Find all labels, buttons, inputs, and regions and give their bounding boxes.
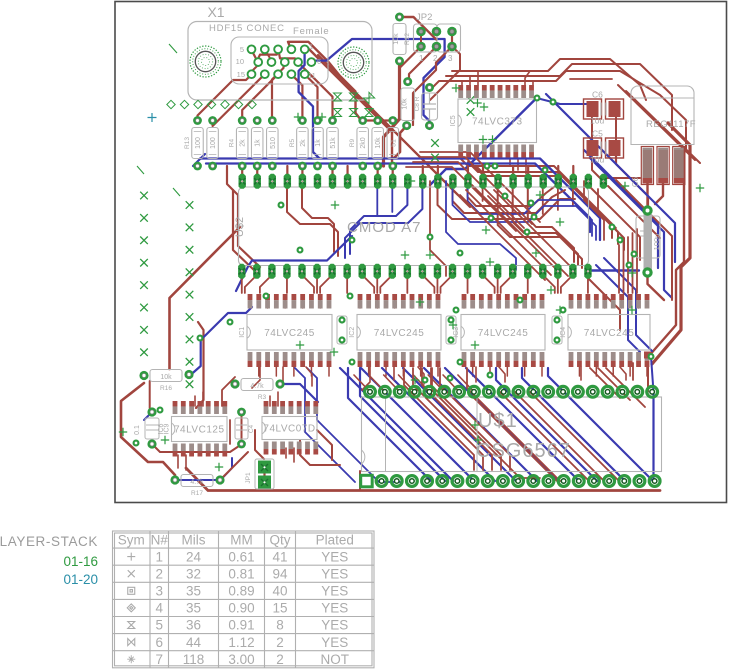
wire (300, 440, 340, 465)
wire (241, 412, 243, 444)
svg-text:R13: R13 (184, 137, 191, 149)
wire (411, 296, 413, 308)
wire (200, 159, 600, 241)
wire (458, 375, 474, 392)
U$2 top pad row (239, 174, 608, 189)
capacitor 0.1u (446, 316, 456, 344)
wire (222, 377, 235, 406)
wire (476, 166, 624, 250)
svg-text:2: 2 (276, 635, 284, 650)
svg-text:15: 15 (237, 70, 245, 79)
wire (392, 166, 394, 181)
capacitor C4 (235, 408, 255, 449)
svg-text:IC1: IC1 (239, 327, 246, 338)
wire (328, 363, 330, 376)
svg-text:IC2: IC2 (349, 327, 356, 338)
wire (430, 71, 686, 150)
wire (310, 363, 312, 376)
wire (359, 471, 361, 491)
IC IC1 74LVC245 body (239, 315, 332, 351)
wire (206, 164, 590, 233)
svg-text:R3: R3 (258, 394, 267, 401)
wire (293, 363, 295, 376)
svg-text:01-16: 01-16 (63, 554, 98, 569)
svg-text:2k: 2k (240, 139, 247, 147)
wire (360, 368, 445, 481)
wire (460, 195, 545, 280)
wire (241, 275, 243, 293)
wire (422, 166, 424, 181)
wire (422, 275, 434, 293)
svg-text:0.1: 0.1 (134, 425, 141, 435)
drill marks column 2 (186, 201, 194, 388)
wire (299, 49, 319, 158)
svg-text:YES: YES (321, 635, 348, 650)
wire (494, 190, 574, 270)
wire (394, 126, 407, 158)
wire (302, 275, 314, 293)
wire (468, 184, 558, 206)
wire (463, 296, 465, 308)
wire (588, 269, 639, 271)
IC IC4 74LVC245 body (560, 315, 650, 351)
svg-text:24: 24 (186, 549, 202, 564)
wire (460, 158, 612, 238)
wire (420, 363, 422, 376)
wire (618, 245, 620, 293)
wire (473, 397, 557, 481)
IC IC3 74LVC245 body (453, 315, 545, 351)
svg-text:44: 44 (186, 635, 202, 650)
svg-text:74LVC245: 74LVC245 (584, 328, 635, 339)
IC 74LVC07D top pads (264, 401, 319, 414)
wire (305, 74, 318, 120)
wire (317, 430, 332, 460)
wire (548, 368, 653, 481)
wire (286, 275, 288, 293)
wire (249, 296, 251, 308)
wire (121, 383, 175, 475)
wire (288, 42, 361, 121)
wire (437, 166, 439, 181)
wire (595, 363, 597, 376)
svg-text:74LVC245: 74LVC245 (264, 328, 315, 339)
wire (257, 49, 278, 60)
wire (251, 61, 257, 72)
wire (497, 275, 499, 293)
wire (468, 162, 618, 244)
X1 pin 11 (301, 70, 309, 78)
wire (604, 296, 606, 308)
wire (362, 367, 370, 390)
X1 pin 12 (288, 70, 296, 78)
wire (220, 458, 232, 481)
svg-text:41: 41 (272, 549, 287, 564)
wire (468, 189, 592, 236)
wire (263, 467, 265, 482)
svg-text:0.81: 0.81 (228, 566, 254, 581)
wire (280, 384, 318, 402)
wire (346, 275, 348, 293)
wire (452, 59, 646, 100)
wire (467, 275, 469, 293)
svg-text:C8 R: C8 R (414, 96, 421, 111)
svg-text:35: 35 (186, 584, 201, 599)
IC3 74LVC245 bottom pads (462, 352, 545, 367)
wire (306, 367, 312, 386)
svg-text:N#: N# (151, 533, 169, 548)
svg-text:3: 3 (155, 584, 163, 599)
wire (213, 74, 265, 126)
wire (557, 166, 559, 181)
wire (144, 412, 152, 420)
svg-text:YES: YES (321, 601, 348, 616)
wire (469, 76, 471, 85)
svg-text:51: 51 (390, 139, 397, 147)
svg-text:5: 5 (155, 618, 163, 633)
wire (584, 150, 658, 268)
wire (588, 278, 620, 330)
svg-text:6: 6 (317, 57, 321, 66)
svg-text:YES: YES (321, 566, 348, 581)
svg-text:IC4: IC4 (560, 327, 567, 338)
wire (431, 368, 501, 470)
wire (175, 479, 220, 481)
X1 mounting hole left (190, 46, 221, 77)
IC2 74LVC245 top pads (358, 294, 441, 309)
wire (524, 363, 526, 376)
svg-text:Qty: Qty (269, 533, 290, 548)
resistor R5 2k (297, 116, 309, 170)
wire (557, 189, 559, 210)
svg-text:10u: 10u (590, 155, 604, 165)
capacitor C5 10u (584, 129, 624, 165)
svg-text:C4: C4 (248, 424, 255, 433)
wire (420, 32, 422, 47)
op IC5 74LVC373 body (450, 99, 537, 143)
wire (461, 81, 463, 85)
wire (418, 367, 424, 384)
wire (437, 363, 439, 376)
wire (522, 368, 625, 481)
IC IC2 74LVC245 body (349, 315, 441, 351)
wire (621, 296, 623, 308)
wire (413, 368, 483, 470)
svg-text:R5: R5 (289, 138, 296, 147)
wire (319, 296, 321, 308)
wire (440, 368, 510, 470)
svg-text:100: 100 (210, 137, 217, 149)
svg-text:YES: YES (321, 549, 348, 564)
wire (496, 368, 597, 481)
resistor R9 2k0 (357, 116, 369, 170)
module U$2 CMOD A7 outline (234, 187, 589, 266)
via left of C6 (549, 98, 556, 105)
REG1117F leg pads (641, 147, 685, 185)
svg-text:1: 1 (419, 54, 424, 63)
wire (477, 71, 479, 85)
capacitor C7 100u (636, 205, 661, 277)
connector JP1 (245, 459, 274, 489)
svg-text:1: 1 (309, 42, 313, 51)
wire (340, 368, 453, 481)
X1 pin 9 (268, 58, 276, 66)
wire (413, 375, 429, 392)
wire (453, 189, 566, 213)
svg-text:4.7k: 4.7k (190, 479, 204, 486)
svg-text:U$1: U$1 (478, 410, 518, 432)
svg-text:IC5: IC5 (450, 115, 457, 126)
wire (513, 189, 578, 265)
svg-text:U$2: U$2 (234, 217, 246, 237)
svg-text:8: 8 (276, 618, 284, 633)
svg-text:10k: 10k (393, 33, 400, 45)
wire (354, 375, 370, 392)
drill marks diamonds (167, 100, 256, 108)
svg-text:2k: 2k (300, 139, 307, 147)
wire (331, 166, 333, 181)
wire (648, 127, 684, 357)
wire (441, 275, 453, 293)
svg-text:YES: YES (321, 584, 348, 599)
wire (369, 375, 385, 392)
wire (413, 162, 524, 228)
wire (527, 166, 529, 181)
resistor R16 10k (139, 370, 193, 393)
svg-text:118: 118 (183, 652, 205, 667)
svg-text:15: 15 (272, 601, 287, 616)
wire (598, 368, 630, 400)
wire (361, 119, 393, 121)
wire (272, 62, 284, 120)
wire (446, 64, 672, 130)
capacitor 0.1u (337, 316, 347, 344)
wire (647, 363, 649, 392)
wire (626, 91, 700, 163)
capacitor C 0.1 (134, 407, 159, 448)
resistor R3 4.7k (230, 379, 284, 402)
wire (430, 98, 537, 185)
plus marks (119, 84, 704, 471)
wire (177, 455, 179, 468)
wire (483, 275, 495, 293)
wire (311, 39, 444, 129)
connector X1 (188, 4, 372, 100)
capacitor C6 10u (584, 90, 624, 126)
wire (445, 368, 558, 481)
wire (430, 47, 460, 101)
IC3 74LVC245 top pads (462, 294, 545, 309)
wire (638, 296, 640, 308)
wire (189, 307, 252, 376)
wire (532, 296, 534, 308)
svg-text:MM: MM (230, 533, 253, 548)
resistor 51 (387, 116, 399, 170)
wire (616, 156, 648, 205)
X1 pin 4 (261, 45, 269, 53)
svg-text:10k: 10k (160, 374, 172, 381)
wire (561, 275, 573, 293)
wire (525, 158, 527, 174)
wire (149, 381, 151, 408)
svg-text:CSG6567: CSG6567 (476, 440, 571, 462)
wire (320, 275, 332, 293)
board outline frame (115, 2, 727, 503)
chip U$1 CSG6567 outline (362, 397, 662, 472)
svg-text:74LVC245: 74LVC245 (374, 328, 425, 339)
svg-text:0.89: 0.89 (228, 584, 254, 599)
wire (655, 183, 663, 204)
wire (291, 74, 302, 120)
wire (285, 448, 287, 458)
svg-text:R4: R4 (229, 138, 236, 147)
resistor 100 (207, 116, 219, 170)
wire (220, 452, 248, 480)
wire (578, 363, 580, 376)
svg-text:100: 100 (195, 137, 202, 149)
wire (432, 368, 540, 478)
wire (196, 322, 204, 408)
IC1 74LVC245 bottom pads (248, 352, 332, 367)
svg-text:36: 36 (186, 618, 201, 633)
wire (542, 189, 544, 214)
wire (307, 368, 400, 482)
wire (318, 55, 458, 195)
wire (402, 363, 404, 376)
wire (587, 296, 589, 308)
wire (629, 363, 631, 376)
wire (537, 98, 596, 104)
wire (267, 296, 269, 308)
wire (198, 74, 252, 120)
wire (269, 396, 271, 406)
IC4 74LVC245 bottom pads (569, 352, 650, 367)
wire (572, 189, 574, 206)
wire (453, 189, 597, 240)
svg-text:10k: 10k (402, 98, 409, 110)
wire (652, 392, 654, 481)
wire (590, 158, 672, 298)
wire (382, 368, 495, 481)
wire (499, 367, 505, 382)
wire (482, 189, 484, 201)
wire (620, 367, 626, 380)
vias (133, 95, 655, 447)
wire (258, 363, 260, 376)
wire (406, 167, 516, 231)
cyan plus mark (148, 113, 157, 122)
svg-text:C6: C6 (631, 176, 640, 187)
svg-text:CMOD A7: CMOD A7 (347, 219, 422, 236)
svg-text:10: 10 (236, 57, 244, 66)
wire (652, 123, 690, 364)
wire (194, 396, 196, 406)
wire (616, 180, 672, 300)
wire (584, 181, 604, 240)
svg-text:C5: C5 (592, 129, 603, 139)
drill marks hourglass row2 (334, 109, 374, 117)
svg-text:2k0: 2k0 (360, 137, 367, 148)
svg-text:5: 5 (240, 45, 244, 54)
IC 74LVC07D body (262, 417, 317, 440)
svg-text:74LVC245: 74LVC245 (478, 328, 529, 339)
wire (301, 166, 303, 181)
svg-text:JP2: JP2 (416, 12, 432, 23)
wire (546, 94, 675, 262)
wire (307, 47, 392, 166)
wire (632, 233, 634, 293)
svg-text:1k: 1k (315, 139, 322, 147)
wire (475, 367, 477, 382)
wire (532, 81, 534, 85)
wire (245, 275, 257, 293)
wire (260, 275, 272, 293)
svg-text:74LVC373: 74LVC373 (472, 116, 523, 127)
svg-text:3.00: 3.00 (228, 652, 254, 667)
wire (376, 296, 378, 308)
wire (443, 375, 459, 392)
svg-text:4: 4 (155, 601, 163, 616)
capacitor C8 (422, 83, 438, 130)
wire (399, 375, 415, 392)
svg-text:0.61: 0.61 (228, 549, 254, 564)
X1 pin 1 (301, 45, 309, 53)
svg-text:01-20: 01-20 (63, 572, 98, 587)
wire (430, 181, 446, 276)
svg-text:X1: X1 (207, 4, 224, 20)
resistor 1k (251, 116, 263, 170)
wire (193, 154, 205, 166)
wire (265, 49, 272, 60)
svg-text:Female: Female (293, 26, 329, 37)
X1 pin 8 (281, 58, 289, 66)
wire (256, 166, 258, 181)
svg-text:1k: 1k (255, 139, 262, 147)
resistor 510 (267, 116, 279, 170)
legend LAYER-STACK (0, 534, 98, 587)
wire (612, 363, 614, 376)
svg-text:35: 35 (186, 601, 201, 616)
wire (186, 468, 660, 491)
wire (345, 189, 422, 258)
wire (598, 189, 616, 228)
IC9 74LVC125 top pads (173, 401, 228, 414)
wire (384, 61, 400, 166)
svg-text:4.7k: 4.7k (250, 383, 264, 390)
wire (404, 368, 474, 470)
wire (488, 196, 568, 276)
regulator REG1117F (631, 86, 696, 145)
wire (438, 189, 576, 219)
wire (515, 392, 604, 481)
wire (170, 227, 241, 369)
capacitor 0.1u (552, 316, 562, 344)
resistor 10k (372, 116, 384, 170)
svg-text:10u: 10u (590, 116, 604, 126)
wire (185, 455, 187, 470)
wire (359, 296, 361, 308)
wire (409, 47, 437, 84)
slash marks (137, 44, 180, 196)
svg-text:IC6: IC6 (158, 423, 165, 434)
wire (557, 275, 559, 293)
wire (252, 367, 260, 388)
wire (467, 166, 469, 181)
svg-text:R17: R17 (191, 490, 203, 497)
wire (316, 275, 318, 293)
wire (615, 117, 617, 140)
wire (227, 166, 260, 267)
